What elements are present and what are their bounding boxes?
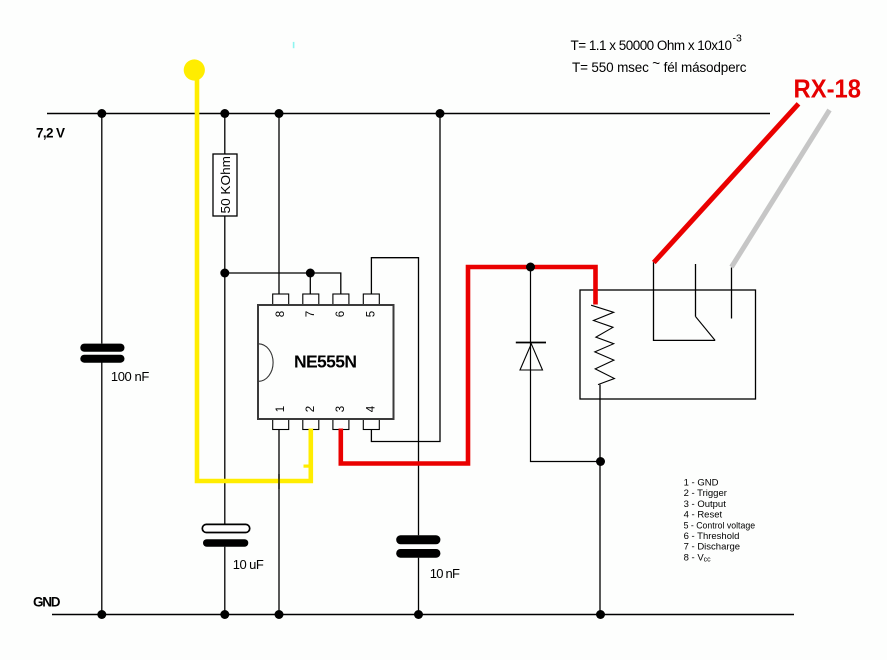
capacitor C2 10 uF negative plate bbox=[203, 539, 248, 547]
svg-text:7 - Discharge: 7 - Discharge bbox=[684, 542, 741, 553]
IC U1 notch bbox=[259, 344, 274, 382]
wire: pin 5 control voltage over to 10nF bbox=[371, 258, 418, 536]
capacitor C1 100 nF bottom plate bbox=[80, 355, 124, 363]
svg-text:7,2 V: 7,2 V bbox=[36, 126, 65, 141]
node: junction resistor/10uF bbox=[220, 269, 229, 278]
svg-text:RX-18: RX-18 bbox=[794, 74, 862, 104]
capacitor C3 10 nF top plate bbox=[396, 535, 440, 544]
svg-text:50 KOhm: 50 KOhm bbox=[218, 156, 233, 214]
wire: +7.2V top rail bbox=[47, 113, 770, 115]
wire: pin 4 reset up to rail bbox=[371, 114, 440, 442]
wire: red lead-out to RX-18 label bbox=[654, 104, 799, 263]
wire: pin 1 over yellow crossing bbox=[278, 474, 280, 489]
wire: GND bottom rail bbox=[52, 614, 794, 616]
node: yellow probe dot bbox=[184, 59, 205, 80]
node: junction pin7 tap bbox=[306, 269, 315, 278]
node: GND junction relay coil bbox=[596, 610, 605, 619]
node: GND junction pin1 bbox=[275, 610, 284, 619]
wire: pin 7 tap up to threshold run bbox=[309, 273, 311, 295]
svg-text:6: 6 bbox=[335, 311, 347, 317]
IC U1 pin 4 stub bbox=[363, 419, 379, 430]
wire: left branch from rail to 100nF top plate bbox=[101, 114, 103, 344]
svg-text:GND: GND bbox=[33, 595, 61, 610]
wire: yellow stub artifact bbox=[304, 465, 312, 468]
diode D1 cathode bar bbox=[516, 342, 546, 344]
wire: threshold node down to 10uF top plate bbox=[224, 273, 226, 524]
relay switch pin B (moving contact) bbox=[695, 264, 697, 317]
svg-text:T= 1.1 x 50000 Ohm x 10x10: T= 1.1 x 50000 Ohm x 10x10 bbox=[571, 38, 733, 53]
resistor R1 50 KOhm body bbox=[213, 154, 237, 216]
svg-text:4: 4 bbox=[366, 405, 378, 412]
IC U1 NE555N body bbox=[258, 305, 394, 419]
node: rail junction at pin 8 branch bbox=[275, 109, 284, 118]
capacitor C3 10 nF bottom plate bbox=[396, 549, 440, 558]
IC U1 pin 8 stub bbox=[273, 294, 289, 305]
wire: red output net pin3 to relay coil bbox=[341, 267, 596, 464]
relay switch pin A (common) bbox=[654, 262, 716, 340]
node: junction output net / diode (over red) bbox=[526, 263, 535, 272]
capacitor C1 100 nF top plate bbox=[80, 344, 124, 352]
wire: 10uF bottom plate to GND rail bbox=[224, 547, 226, 615]
svg-text:2: 2 bbox=[305, 406, 317, 412]
diode D1 triangle bbox=[520, 344, 543, 370]
wire: grey lead-out to RX-18 label bbox=[732, 110, 830, 267]
relay switch pin C bbox=[731, 268, 733, 319]
relay K1 RX-18 box bbox=[580, 290, 756, 399]
artifact: cyan dash bbox=[293, 42, 295, 48]
IC U1 pin 1 stub bbox=[273, 419, 289, 430]
IC U1 pin 3 stub bbox=[333, 419, 349, 430]
node: rail junction at 100nF branch bbox=[97, 109, 106, 118]
svg-text:100 nF: 100 nF bbox=[111, 369, 149, 384]
wire: diode branch output net down to coil return bbox=[531, 267, 601, 462]
svg-text:1 - GND: 1 - GND bbox=[684, 478, 719, 489]
relay switch contact blade bbox=[696, 317, 716, 341]
wire: pin 1 GND down to rail bbox=[278, 430, 280, 615]
svg-text:5: 5 bbox=[366, 311, 378, 317]
node: rail junction at resistor branch bbox=[220, 109, 229, 118]
svg-text:-3: -3 bbox=[733, 33, 742, 45]
IC U1 pin 6 stub bbox=[333, 294, 349, 305]
svg-text:3 - Output: 3 - Output bbox=[684, 499, 727, 510]
svg-text:4 - Reset: 4 - Reset bbox=[684, 510, 723, 521]
wire: yellow trigger net pin2 to probe bbox=[197, 70, 311, 481]
wire: rail to resistor R1 top bbox=[224, 114, 226, 155]
wire: threshold node horizontal run to pin 6 bbox=[225, 273, 341, 295]
svg-text:7: 7 bbox=[305, 311, 317, 317]
IC U1 pin 5 stub bbox=[363, 294, 379, 305]
node: rail junction at reset branch bbox=[436, 109, 445, 118]
node: junction diode anode / coil return bbox=[596, 457, 605, 466]
svg-text:NE555N: NE555N bbox=[294, 352, 357, 372]
svg-text:10 nF: 10 nF bbox=[430, 566, 460, 581]
capacitor C2 10 uF positive plate (outlined) bbox=[202, 524, 249, 532]
wire: resistor R1 bottom to threshold node bbox=[224, 216, 226, 273]
svg-text:1: 1 bbox=[275, 406, 287, 412]
svg-text:5 - Control voltage: 5 - Control voltage bbox=[684, 520, 756, 531]
IC U1 pin 7 stub bbox=[303, 294, 319, 305]
node: GND junction 10uF bbox=[220, 610, 229, 619]
IC U1 pin 2 stub bbox=[303, 419, 319, 430]
svg-text:8: 8 bbox=[275, 311, 287, 317]
relay K1 coil zigzag bbox=[591, 305, 614, 384]
wire: pin 8 Vcc up to rail bbox=[278, 114, 280, 295]
node: GND junction 100nF bbox=[97, 610, 106, 619]
svg-text:6 - Threshold: 6 - Threshold bbox=[684, 531, 740, 542]
wire: 100nF bottom plate to GND rail bbox=[101, 363, 103, 615]
svg-text:3: 3 bbox=[335, 406, 347, 412]
node: GND junction 10nF bbox=[414, 610, 423, 619]
svg-text:10 uF: 10 uF bbox=[233, 557, 264, 572]
wire: coil bottom to GND rail bbox=[599, 385, 601, 615]
svg-text:2 - Trigger: 2 - Trigger bbox=[684, 488, 727, 499]
wire: 10nF bottom plate to GND rail bbox=[418, 558, 420, 615]
